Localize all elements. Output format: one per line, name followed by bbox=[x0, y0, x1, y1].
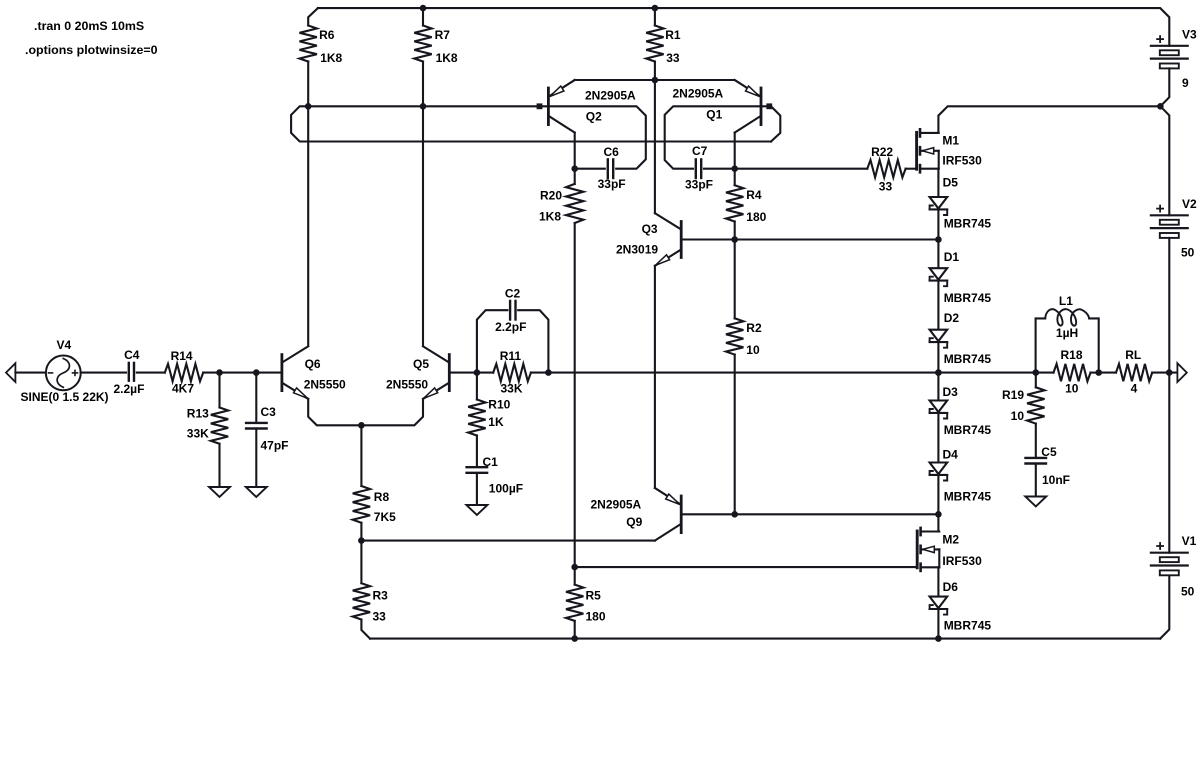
svg-text:1K8: 1K8 bbox=[436, 51, 458, 65]
svg-text:V3: V3 bbox=[1182, 28, 1197, 42]
svg-text:2N2905A: 2N2905A bbox=[673, 86, 724, 100]
svg-text:1K8: 1K8 bbox=[539, 210, 561, 224]
svg-text:D3: D3 bbox=[943, 385, 959, 399]
svg-text:180: 180 bbox=[746, 210, 766, 224]
svg-text:D2: D2 bbox=[944, 311, 960, 325]
svg-text:180: 180 bbox=[586, 610, 606, 624]
svg-text:R19: R19 bbox=[1002, 388, 1024, 402]
svg-text:Q2: Q2 bbox=[586, 110, 602, 124]
svg-text:2N5550: 2N5550 bbox=[304, 378, 346, 392]
svg-text:R7: R7 bbox=[435, 28, 451, 42]
svg-text:10: 10 bbox=[1011, 409, 1025, 423]
svg-text:Q5: Q5 bbox=[413, 357, 429, 371]
svg-text:MBR745: MBR745 bbox=[944, 352, 992, 366]
svg-text:50: 50 bbox=[1181, 585, 1195, 599]
svg-text:2N2905A: 2N2905A bbox=[591, 497, 642, 511]
svg-text:M1: M1 bbox=[942, 133, 959, 147]
svg-text:50: 50 bbox=[1181, 245, 1195, 259]
svg-text:V2: V2 bbox=[1182, 197, 1197, 211]
svg-text:2N5550: 2N5550 bbox=[386, 378, 428, 392]
svg-text:1K8: 1K8 bbox=[320, 51, 342, 65]
svg-text:C5: C5 bbox=[1041, 445, 1057, 459]
svg-text:R22: R22 bbox=[871, 145, 893, 159]
svg-text:Q3: Q3 bbox=[642, 222, 658, 236]
svg-text:33: 33 bbox=[373, 610, 387, 624]
svg-text:R3: R3 bbox=[373, 588, 389, 602]
svg-text:47pF: 47pF bbox=[261, 438, 289, 452]
svg-text:.options plotwinsize=0: .options plotwinsize=0 bbox=[25, 43, 158, 57]
svg-text:C1: C1 bbox=[483, 455, 499, 469]
svg-text:Q6: Q6 bbox=[305, 357, 321, 371]
svg-text:2N2905A: 2N2905A bbox=[585, 89, 636, 103]
svg-text:R1: R1 bbox=[665, 28, 681, 42]
svg-text:R18: R18 bbox=[1061, 348, 1083, 362]
svg-text:D5: D5 bbox=[943, 175, 959, 189]
svg-text:R5: R5 bbox=[586, 588, 602, 602]
svg-text:L1: L1 bbox=[1059, 294, 1073, 308]
svg-text:MBR745: MBR745 bbox=[944, 489, 992, 503]
svg-text:IRF530: IRF530 bbox=[942, 153, 982, 167]
svg-text:100µF: 100µF bbox=[489, 481, 523, 495]
svg-text:2N3019: 2N3019 bbox=[616, 242, 658, 256]
svg-text:R6: R6 bbox=[319, 28, 335, 42]
svg-text:Q1: Q1 bbox=[706, 108, 722, 122]
svg-text:10: 10 bbox=[746, 343, 760, 357]
svg-text:33: 33 bbox=[666, 51, 680, 65]
svg-text:10nF: 10nF bbox=[1042, 473, 1070, 487]
svg-text:33pF: 33pF bbox=[685, 178, 713, 192]
svg-text:IRF530: IRF530 bbox=[942, 554, 982, 568]
svg-text:V1: V1 bbox=[1182, 534, 1197, 548]
svg-text:C4: C4 bbox=[124, 348, 140, 362]
svg-text:D1: D1 bbox=[944, 250, 960, 264]
svg-text:33pF: 33pF bbox=[598, 177, 626, 191]
svg-text:C2: C2 bbox=[505, 287, 521, 301]
svg-text:2.2pF: 2.2pF bbox=[495, 320, 526, 334]
svg-text:7K5: 7K5 bbox=[374, 510, 396, 524]
svg-text:R8: R8 bbox=[374, 490, 390, 504]
svg-text:10: 10 bbox=[1065, 381, 1079, 395]
svg-text:C7: C7 bbox=[692, 144, 708, 158]
svg-text:33: 33 bbox=[879, 180, 893, 194]
svg-text:R14: R14 bbox=[171, 349, 193, 363]
svg-text:R10: R10 bbox=[488, 398, 510, 412]
svg-text:33K: 33K bbox=[501, 381, 523, 395]
svg-text:C3: C3 bbox=[261, 405, 277, 419]
svg-text:R13: R13 bbox=[187, 406, 209, 420]
svg-text:R4: R4 bbox=[746, 188, 762, 202]
svg-text:MBR745: MBR745 bbox=[944, 217, 992, 231]
svg-text:M2: M2 bbox=[942, 532, 959, 546]
svg-text:R2: R2 bbox=[746, 321, 762, 335]
svg-text:9: 9 bbox=[1182, 76, 1189, 90]
svg-text:2.2µF: 2.2µF bbox=[114, 382, 145, 396]
svg-text:4: 4 bbox=[1131, 381, 1138, 395]
svg-text:1K: 1K bbox=[488, 415, 504, 429]
svg-text:33K: 33K bbox=[187, 426, 209, 440]
svg-text:D6: D6 bbox=[943, 580, 959, 594]
svg-text:1µH: 1µH bbox=[1056, 326, 1078, 340]
svg-text:MBR745: MBR745 bbox=[944, 291, 992, 305]
svg-text:MBR745: MBR745 bbox=[944, 619, 992, 633]
svg-text:.tran 0 20mS 10mS: .tran 0 20mS 10mS bbox=[34, 19, 144, 33]
svg-text:4K7: 4K7 bbox=[172, 381, 194, 395]
svg-text:RL: RL bbox=[1125, 348, 1141, 362]
svg-text:C6: C6 bbox=[604, 145, 620, 159]
svg-text:R20: R20 bbox=[540, 188, 562, 202]
svg-text:R11: R11 bbox=[500, 349, 522, 363]
svg-text:SINE(0 1.5 22K): SINE(0 1.5 22K) bbox=[21, 390, 109, 404]
svg-text:MBR745: MBR745 bbox=[944, 423, 992, 437]
svg-text:D4: D4 bbox=[943, 448, 959, 462]
svg-text:Q9: Q9 bbox=[626, 515, 642, 529]
svg-text:V4: V4 bbox=[57, 338, 72, 352]
